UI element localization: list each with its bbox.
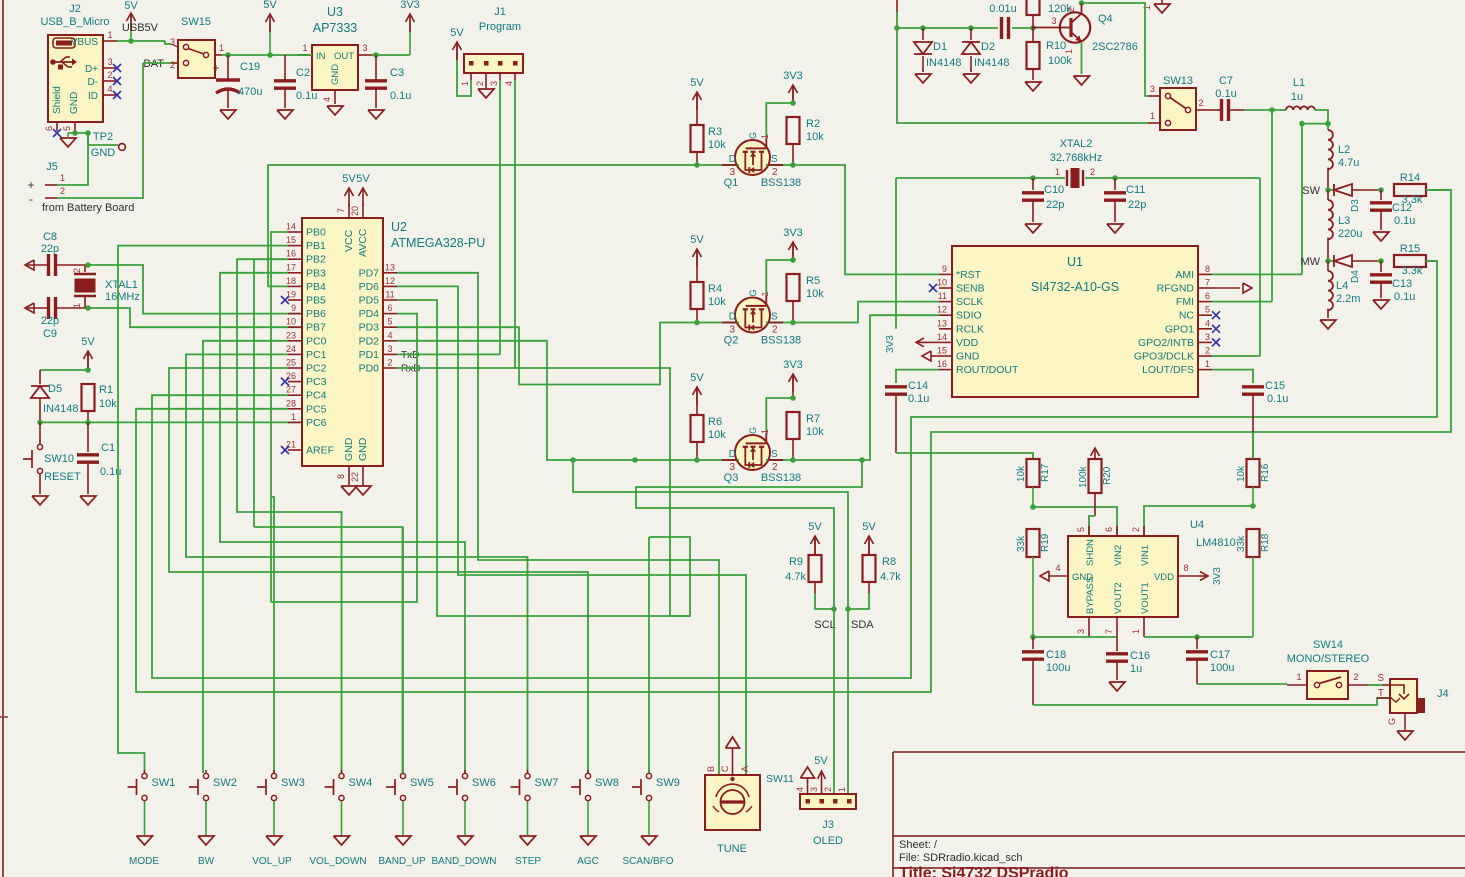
svg-text:R7: R7 xyxy=(806,413,820,425)
svg-text:C3: C3 xyxy=(390,67,404,79)
svg-text:3.3k: 3.3k xyxy=(1402,265,1423,277)
svg-text:4: 4 xyxy=(1055,563,1060,573)
svg-text:SW7: SW7 xyxy=(535,777,559,789)
svg-text:Title: Si4732 DSPradio: Title: Si4732 DSPradio xyxy=(899,865,1069,877)
svg-text:Program: Program xyxy=(479,21,521,33)
svg-text:4.7u: 4.7u xyxy=(1338,157,1359,169)
svg-text:ROUT/DOUT: ROUT/DOUT xyxy=(956,364,1019,376)
svg-text:2SC2786: 2SC2786 xyxy=(1092,41,1138,53)
svg-text:4.7k: 4.7k xyxy=(880,571,901,583)
svg-text:C7: C7 xyxy=(1219,75,1233,87)
svg-text:R18: R18 xyxy=(1260,533,1271,552)
svg-text:D1: D1 xyxy=(933,41,947,53)
svg-text:PB6: PB6 xyxy=(306,308,326,320)
svg-text:RFGND: RFGND xyxy=(1157,283,1195,295)
svg-text:ID: ID xyxy=(88,91,98,102)
svg-text:TUNE: TUNE xyxy=(717,843,747,855)
svg-text:D3: D3 xyxy=(1350,199,1361,212)
svg-text:22: 22 xyxy=(350,472,360,482)
svg-text:5V: 5V xyxy=(356,173,370,185)
svg-text:ATMEGA328-PU: ATMEGA328-PU xyxy=(391,236,485,250)
svg-text:S: S xyxy=(771,449,778,460)
svg-text:16: 16 xyxy=(286,249,296,259)
svg-text:C19: C19 xyxy=(240,61,260,73)
svg-text:5V: 5V xyxy=(690,372,704,384)
svg-text:OUT: OUT xyxy=(334,51,354,62)
svg-text:L3: L3 xyxy=(1338,215,1350,227)
svg-text:*RST: *RST xyxy=(956,269,982,281)
svg-text:L1: L1 xyxy=(1293,77,1305,89)
svg-text:100k: 100k xyxy=(1048,55,1072,67)
svg-text:4: 4 xyxy=(504,81,514,86)
svg-text:BSS138: BSS138 xyxy=(761,472,801,484)
svg-text:R14: R14 xyxy=(1400,172,1420,184)
svg-text:SW2: SW2 xyxy=(213,777,237,789)
svg-text:SDA: SDA xyxy=(851,619,874,631)
svg-text:LM4810: LM4810 xyxy=(1196,537,1236,549)
svg-text:SW15: SW15 xyxy=(181,16,211,28)
svg-text:RCLK: RCLK xyxy=(956,323,984,335)
svg-text:Q2: Q2 xyxy=(724,335,739,347)
svg-text:100u: 100u xyxy=(1046,662,1070,674)
svg-text:BSS138: BSS138 xyxy=(761,177,801,189)
svg-text:SCAN/BFO: SCAN/BFO xyxy=(622,856,673,867)
svg-text:+: + xyxy=(27,178,34,192)
svg-text:100k: 100k xyxy=(1078,465,1089,488)
svg-text:PB4: PB4 xyxy=(306,281,326,293)
svg-text:3: 3 xyxy=(1076,629,1086,634)
svg-text:5V: 5V xyxy=(690,77,704,89)
svg-text:PB2: PB2 xyxy=(306,254,326,266)
svg-text:USB_B_Micro: USB_B_Micro xyxy=(40,16,109,28)
svg-text:B: B xyxy=(706,766,716,772)
svg-text:2: 2 xyxy=(107,70,112,80)
svg-text:RESET: RESET xyxy=(44,471,81,483)
svg-text:VDD: VDD xyxy=(1154,572,1174,583)
svg-text:SW10: SW10 xyxy=(44,453,74,465)
svg-text:J3: J3 xyxy=(822,819,834,831)
svg-text:6: 6 xyxy=(44,126,54,131)
svg-text:SW6: SW6 xyxy=(472,777,496,789)
svg-text:AVCC: AVCC xyxy=(357,228,369,257)
svg-text:3: 3 xyxy=(1150,84,1155,94)
svg-text:10k: 10k xyxy=(806,288,824,300)
svg-text:VOL_DOWN: VOL_DOWN xyxy=(309,856,366,867)
svg-text:SDIO: SDIO xyxy=(956,310,982,322)
svg-text:C16: C16 xyxy=(1130,650,1150,662)
svg-text:PD1: PD1 xyxy=(359,349,380,361)
svg-text:5: 5 xyxy=(1205,305,1210,315)
svg-text:OLED: OLED xyxy=(813,835,843,847)
svg-text:22p: 22p xyxy=(1046,199,1064,211)
svg-text:MW: MW xyxy=(1300,256,1320,268)
svg-text:2: 2 xyxy=(823,787,833,792)
svg-text:MONO/STEREO: MONO/STEREO xyxy=(1287,653,1370,665)
svg-text:10: 10 xyxy=(286,317,296,327)
svg-text:SCLK: SCLK xyxy=(956,296,983,308)
svg-text:5: 5 xyxy=(1076,527,1086,532)
svg-text:2: 2 xyxy=(170,60,175,70)
svg-text:5: 5 xyxy=(387,317,392,327)
svg-text:1: 1 xyxy=(760,429,770,434)
svg-text:4: 4 xyxy=(1205,318,1210,328)
svg-text:C: C xyxy=(720,765,730,772)
svg-text:XTAL1: XTAL1 xyxy=(105,279,138,291)
svg-text:1: 1 xyxy=(291,412,296,422)
svg-text:L2: L2 xyxy=(1338,144,1350,156)
svg-text:PD6: PD6 xyxy=(359,281,380,293)
svg-text:1: 1 xyxy=(302,43,307,53)
svg-text:2: 2 xyxy=(475,81,485,86)
svg-text:6: 6 xyxy=(1104,527,1114,532)
svg-text:1: 1 xyxy=(72,303,82,308)
svg-text:7: 7 xyxy=(1205,278,1210,288)
svg-text:D5: D5 xyxy=(48,383,62,395)
svg-text:5V: 5V xyxy=(862,521,876,533)
svg-text:1: 1 xyxy=(760,134,770,139)
svg-text:2.2m: 2.2m xyxy=(1336,293,1360,305)
svg-text:1: 1 xyxy=(219,43,224,53)
svg-text:PC4: PC4 xyxy=(306,390,327,402)
svg-text:9: 9 xyxy=(942,264,947,274)
svg-text:SW13: SW13 xyxy=(1163,75,1193,87)
svg-text:3: 3 xyxy=(809,787,819,792)
svg-text:G: G xyxy=(1387,718,1397,725)
svg-text:PD5: PD5 xyxy=(359,295,380,307)
svg-text:2: 2 xyxy=(1066,7,1076,12)
svg-text:1: 1 xyxy=(1142,5,1152,10)
svg-text:5V: 5V xyxy=(814,755,828,767)
svg-text:0.1u: 0.1u xyxy=(908,393,929,405)
svg-text:R16: R16 xyxy=(1260,463,1271,482)
svg-text:R5: R5 xyxy=(806,275,820,287)
svg-text:J2: J2 xyxy=(69,3,81,15)
svg-text:9: 9 xyxy=(291,303,296,313)
svg-text:SCL: SCL xyxy=(814,619,835,631)
svg-text:SW11: SW11 xyxy=(766,773,794,785)
svg-text:12: 12 xyxy=(937,305,947,315)
svg-text:2: 2 xyxy=(1205,346,1210,356)
svg-text:S: S xyxy=(1377,673,1384,684)
svg-text:BAND_UP: BAND_UP xyxy=(378,856,426,867)
svg-text:STEP: STEP xyxy=(515,856,541,867)
svg-text:GND: GND xyxy=(91,147,116,159)
svg-text:PB7: PB7 xyxy=(306,322,326,334)
svg-text:5: 5 xyxy=(62,126,72,131)
svg-text:GND: GND xyxy=(69,92,80,114)
svg-text:28: 28 xyxy=(286,398,296,408)
svg-text:3V3: 3V3 xyxy=(885,335,896,353)
svg-text:NC: NC xyxy=(1179,310,1195,322)
svg-text:10k: 10k xyxy=(99,398,117,410)
svg-text:C13: C13 xyxy=(1392,278,1412,290)
svg-text:1: 1 xyxy=(460,81,470,86)
svg-text:16: 16 xyxy=(937,359,947,369)
svg-text:PB3: PB3 xyxy=(306,267,326,279)
svg-text:4: 4 xyxy=(795,787,805,792)
svg-text:AREF: AREF xyxy=(306,445,334,457)
svg-text:G: G xyxy=(748,289,758,296)
svg-text:PC2: PC2 xyxy=(306,363,327,375)
svg-text:T: T xyxy=(1378,688,1384,699)
svg-text:SENB: SENB xyxy=(956,283,985,295)
svg-text:32.768kHz: 32.768kHz xyxy=(1050,152,1103,164)
svg-text:24: 24 xyxy=(286,344,296,354)
svg-text:BAND_DOWN: BAND_DOWN xyxy=(431,856,496,867)
svg-text:PC0: PC0 xyxy=(306,335,327,347)
svg-text:0.1u: 0.1u xyxy=(1394,215,1415,227)
svg-text:3V3: 3V3 xyxy=(783,70,803,82)
svg-text:IN: IN xyxy=(316,51,326,62)
svg-text:PD4: PD4 xyxy=(359,308,380,320)
svg-text:1: 1 xyxy=(837,787,847,792)
svg-text:3V3: 3V3 xyxy=(783,359,803,371)
svg-text:PD3: PD3 xyxy=(359,322,380,334)
svg-text:12: 12 xyxy=(385,276,395,286)
svg-text:0.01u: 0.01u xyxy=(989,3,1017,15)
svg-text:2: 2 xyxy=(1353,672,1358,682)
svg-text:Q1: Q1 xyxy=(724,177,739,189)
svg-text:1: 1 xyxy=(60,173,65,183)
svg-text:PD0: PD0 xyxy=(359,363,380,375)
svg-text:-: - xyxy=(29,192,33,206)
svg-text:15: 15 xyxy=(937,346,947,356)
svg-text:3V3: 3V3 xyxy=(783,227,803,239)
svg-text:VIN1: VIN1 xyxy=(1140,545,1151,566)
svg-text:PC3: PC3 xyxy=(306,376,327,388)
svg-text:SW14: SW14 xyxy=(1313,639,1343,651)
svg-text:G: G xyxy=(748,427,758,434)
svg-text:Q4: Q4 xyxy=(1098,13,1113,25)
svg-text:IN4148: IN4148 xyxy=(43,403,78,415)
svg-text:470u: 470u xyxy=(238,86,262,98)
svg-text:VOL_UP: VOL_UP xyxy=(252,856,292,867)
svg-text:D4: D4 xyxy=(1350,270,1361,283)
svg-text:D: D xyxy=(729,154,736,165)
svg-text:13: 13 xyxy=(385,262,395,272)
svg-text:U3: U3 xyxy=(327,5,343,19)
svg-text:8: 8 xyxy=(336,474,346,479)
svg-text:IN4148: IN4148 xyxy=(974,57,1009,69)
svg-text:FMI: FMI xyxy=(1176,296,1194,308)
svg-text:D-: D- xyxy=(87,77,98,88)
svg-text:SHDN: SHDN xyxy=(1085,539,1096,566)
svg-text:5V: 5V xyxy=(450,27,464,39)
svg-text:L4: L4 xyxy=(1336,280,1348,292)
svg-text:PC1: PC1 xyxy=(306,349,327,361)
svg-text:GND: GND xyxy=(330,64,341,85)
svg-text:0.1u: 0.1u xyxy=(1267,393,1288,405)
svg-text:1: 1 xyxy=(1296,672,1301,682)
svg-text:18: 18 xyxy=(286,276,296,286)
svg-text:Q3: Q3 xyxy=(724,472,739,484)
svg-text:C8: C8 xyxy=(43,231,57,243)
svg-text:0.1u: 0.1u xyxy=(1215,88,1236,100)
svg-text:7: 7 xyxy=(1104,629,1114,634)
svg-text:1: 1 xyxy=(1131,629,1141,634)
svg-text:BAT: BAT xyxy=(143,58,164,70)
svg-text:SW9: SW9 xyxy=(656,777,680,789)
svg-text:4: 4 xyxy=(322,97,332,102)
svg-text:C18: C18 xyxy=(1046,649,1066,661)
svg-text:SW5: SW5 xyxy=(410,777,434,789)
svg-text:2: 2 xyxy=(1198,98,1203,108)
svg-text:J1: J1 xyxy=(494,6,506,18)
svg-text:G: G xyxy=(748,132,758,139)
svg-text:1: 1 xyxy=(1150,111,1155,121)
svg-text:MODE: MODE xyxy=(129,856,159,867)
svg-text:D+: D+ xyxy=(85,64,98,75)
svg-text:C14: C14 xyxy=(908,380,928,392)
svg-text:5V: 5V xyxy=(124,0,138,12)
svg-text:2: 2 xyxy=(60,186,65,196)
svg-text:220u: 220u xyxy=(1338,228,1362,240)
svg-text:R19: R19 xyxy=(1040,533,1051,552)
svg-text:U1: U1 xyxy=(1067,255,1083,269)
svg-text:D2: D2 xyxy=(981,41,995,53)
svg-text:33k: 33k xyxy=(1236,535,1247,552)
svg-text:4: 4 xyxy=(107,84,112,94)
svg-text:D: D xyxy=(729,312,736,323)
svg-text:VDD: VDD xyxy=(956,337,979,349)
svg-text:22p: 22p xyxy=(41,315,59,327)
svg-text:2: 2 xyxy=(1090,167,1095,177)
svg-text:PD2: PD2 xyxy=(359,335,380,347)
svg-text:3V3: 3V3 xyxy=(1212,567,1223,585)
svg-text:13: 13 xyxy=(937,318,947,328)
svg-text:VBUS: VBUS xyxy=(71,37,99,48)
svg-text:C10: C10 xyxy=(1044,184,1064,196)
svg-text:AP7333: AP7333 xyxy=(313,21,358,35)
svg-text:3: 3 xyxy=(1205,332,1210,342)
svg-text:J5: J5 xyxy=(46,161,58,173)
svg-text:23: 23 xyxy=(286,330,296,340)
svg-text:SW: SW xyxy=(1302,185,1320,197)
svg-text:BSS138: BSS138 xyxy=(761,335,801,347)
svg-text:R8: R8 xyxy=(882,556,896,568)
svg-text:BYPASS: BYPASS xyxy=(1085,577,1096,614)
svg-text:0.1u: 0.1u xyxy=(296,90,317,102)
svg-text:U2: U2 xyxy=(391,220,407,234)
svg-text:S: S xyxy=(771,312,778,323)
svg-text:PB1: PB1 xyxy=(306,240,326,252)
svg-text:GPO3/DCLK: GPO3/DCLK xyxy=(1134,351,1194,363)
svg-text:15: 15 xyxy=(286,235,296,245)
svg-text:22p: 22p xyxy=(1128,199,1146,211)
svg-text:2: 2 xyxy=(1131,527,1141,532)
svg-text:BW: BW xyxy=(198,856,215,867)
svg-text:SW3: SW3 xyxy=(281,777,305,789)
svg-text:4: 4 xyxy=(387,330,392,340)
svg-text:10k: 10k xyxy=(1236,465,1247,482)
svg-text:6: 6 xyxy=(387,303,392,313)
svg-text:10k: 10k xyxy=(708,429,726,441)
svg-text:1: 1 xyxy=(1055,167,1060,177)
svg-text:GPO1: GPO1 xyxy=(1165,323,1194,335)
svg-text:R2: R2 xyxy=(806,118,820,130)
svg-text:GPO2/INTB: GPO2/INTB xyxy=(1138,337,1194,349)
svg-text:5V: 5V xyxy=(81,336,95,348)
svg-text:VOUT1: VOUT1 xyxy=(1140,582,1151,614)
svg-text:R1: R1 xyxy=(99,384,113,396)
svg-text:5V: 5V xyxy=(263,0,277,11)
svg-text:C17: C17 xyxy=(1210,649,1230,661)
svg-text:3: 3 xyxy=(107,57,112,67)
svg-text:10k: 10k xyxy=(1016,465,1027,482)
svg-text:PC6: PC6 xyxy=(306,417,327,429)
svg-text:1: 1 xyxy=(107,30,112,40)
svg-text:5V: 5V xyxy=(808,521,822,533)
svg-text:3: 3 xyxy=(387,344,392,354)
svg-text:GND: GND xyxy=(343,437,355,461)
svg-text:22p: 22p xyxy=(41,243,59,255)
svg-text:0.1u: 0.1u xyxy=(390,90,411,102)
svg-text:11: 11 xyxy=(385,290,394,300)
svg-text:SW1: SW1 xyxy=(152,777,176,789)
svg-text:10k: 10k xyxy=(806,426,824,438)
svg-text:33k: 33k xyxy=(1016,535,1027,552)
svg-text:4.7k: 4.7k xyxy=(785,571,806,583)
svg-text:1u: 1u xyxy=(1291,91,1303,103)
svg-text:14: 14 xyxy=(937,332,947,342)
svg-text:PD7: PD7 xyxy=(359,267,380,279)
svg-text:10k: 10k xyxy=(708,139,726,151)
svg-text:C1: C1 xyxy=(101,442,115,454)
svg-text:VIN2: VIN2 xyxy=(1113,545,1124,566)
svg-text:3: 3 xyxy=(362,43,367,53)
svg-text:1: 1 xyxy=(760,291,770,296)
svg-text:from Battery Board: from Battery Board xyxy=(42,202,134,214)
svg-text:27: 27 xyxy=(286,385,296,395)
svg-text:SI4732-A10-GS: SI4732-A10-GS xyxy=(1031,280,1119,294)
svg-text:5V: 5V xyxy=(342,173,356,185)
svg-text:5V: 5V xyxy=(690,234,704,246)
svg-text:R9: R9 xyxy=(789,556,803,568)
svg-text:16MHz: 16MHz xyxy=(105,291,140,303)
svg-text:AMI: AMI xyxy=(1175,269,1194,281)
svg-text:XTAL2: XTAL2 xyxy=(1060,138,1093,150)
svg-text:LOUT/DFS: LOUT/DFS xyxy=(1142,364,1194,376)
svg-text:C9: C9 xyxy=(43,328,57,340)
svg-text:USB5V: USB5V xyxy=(122,22,159,34)
svg-text:1: 1 xyxy=(1205,359,1210,369)
svg-text:10k: 10k xyxy=(806,131,824,143)
svg-text:C2: C2 xyxy=(296,67,310,79)
svg-text:100u: 100u xyxy=(1210,662,1234,674)
svg-text:J4: J4 xyxy=(1437,688,1449,700)
svg-text:R4: R4 xyxy=(708,283,722,295)
svg-text:PC5: PC5 xyxy=(306,403,327,415)
svg-text:TP2: TP2 xyxy=(93,131,113,143)
svg-text:Shield: Shield xyxy=(52,86,63,114)
svg-text:File: SDRradio.kicad_sch: File: SDRradio.kicad_sch xyxy=(899,852,1023,864)
svg-text:3V3: 3V3 xyxy=(400,0,420,11)
svg-text:VCC: VCC xyxy=(343,229,355,252)
svg-text:VOUT2: VOUT2 xyxy=(1113,582,1124,614)
svg-text:3: 3 xyxy=(489,81,499,86)
svg-text:R15: R15 xyxy=(1400,243,1420,255)
svg-text:14: 14 xyxy=(286,222,296,232)
svg-text:1u: 1u xyxy=(1130,663,1142,675)
svg-text:8: 8 xyxy=(1183,563,1188,573)
svg-text:0.1u: 0.1u xyxy=(1394,291,1415,303)
svg-text:D: D xyxy=(729,449,736,460)
svg-text:IN4148: IN4148 xyxy=(926,57,961,69)
svg-text:2: 2 xyxy=(387,358,392,368)
svg-text:17: 17 xyxy=(286,262,296,272)
svg-text:C11: C11 xyxy=(1126,184,1145,196)
svg-text:11: 11 xyxy=(938,291,947,301)
